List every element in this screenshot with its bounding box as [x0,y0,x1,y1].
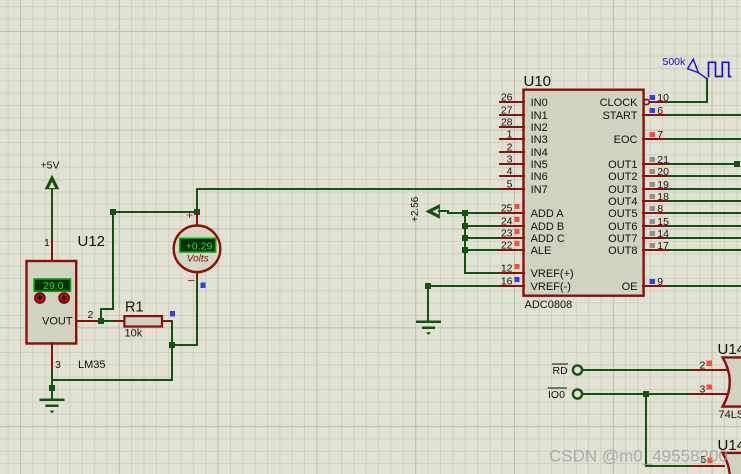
pin state square 20 [650,169,655,174]
vref bus vertical wire [465,213,500,273]
+2.56 power arrow [425,204,448,219]
pin state square 12 [514,264,519,269]
clock waveform glyph [709,62,731,76]
svg-text:+: + [186,208,193,222]
U12 pin 1 stub [51,242,53,262]
wire from pin 7 [668,138,741,140]
R1 right stub [162,320,172,322]
svg-text:1: 1 [44,237,50,249]
svg-text:ADC0808: ADC0808 [525,299,573,311]
svg-text:CLOCK: CLOCK [600,97,639,109]
svg-text:2: 2 [88,309,94,321]
svg-text:OUT1: OUT1 [608,159,637,171]
junction at R1 lower node [169,342,175,348]
U10 pin 14 (OUT7) stub [643,237,668,239]
junction on pin3 wire [49,385,55,391]
svg-text:500k: 500k [663,56,687,68]
svg-text:IN1: IN1 [531,110,548,122]
svg-text:4: 4 [507,165,513,177]
junction ALE [462,247,468,253]
U10 pin 26 (IN0) stub [500,101,524,103]
U10 pin 5 (IN7) stub [500,188,524,190]
wire from pin 17 [668,249,741,251]
junction at VREF(-) corner [425,283,431,289]
pin state square 25 [514,204,519,209]
U10 pin 19 (OUT3) stub [643,188,668,190]
svg-text:25: 25 [501,202,513,214]
U10 pin 23 (ADD C) stub [500,237,524,239]
LM35 up knob [59,293,69,303]
wire R1 node to ground node [52,345,172,380]
pin state square 17 [650,243,655,248]
svg-text:OUT6: OUT6 [608,221,637,233]
U10 pin 22 (ALE) stub [500,249,524,251]
+5V power symbol [45,175,60,242]
LM35 display [34,279,70,292]
svg-text:VREF(-): VREF(-) [531,281,571,293]
svg-text:28: 28 [501,116,513,128]
voltmeter display [180,238,216,252]
pin state square 9 [650,279,655,284]
U10 pin 7 (EOC) stub [643,138,668,140]
pin state square 14 [650,231,655,236]
wire voltmeter+ up and right to U10 IN7 [197,189,500,212]
svg-text:U12: U12 [78,233,106,250]
ground symbol (near U10) [416,320,441,335]
pin state square 18 [650,194,655,199]
svg-text:12: 12 [501,262,513,274]
junction ADD B [462,223,468,229]
wire IO0 node down to U14 pin 5 [646,394,692,466]
pin state square 19 [650,182,655,187]
U10 pin 1 (IN3) stub [500,138,524,140]
wire from pin 14 [668,237,741,239]
U10 pin 18 (OUT4) stub [643,200,668,202]
junction ADD C [462,235,468,241]
U10 pin 16 (VREF(-)) stub [500,285,524,287]
IO0 terminal circle [573,389,582,398]
wire from pin 21 [668,163,737,165]
svg-text:R1: R1 [125,300,144,316]
svg-text:29.0: 29.0 [43,280,64,292]
wire U12 pin2 to R1 [99,320,114,322]
OR gate U14a body [723,357,741,406]
svg-text:27: 27 [501,104,513,116]
svg-text:ADD B: ADD B [531,221,565,233]
svg-text:1: 1 [507,128,513,140]
RD terminal label [553,364,569,377]
wire pin2 node up to voltmeter rail [101,212,113,318]
svg-text:OUT7: OUT7 [608,233,637,245]
svg-text:START: START [602,110,637,122]
svg-text:IN4: IN4 [531,147,548,159]
U10 pin 2 (IN4) stub [500,151,524,153]
wire pin3 to ground [51,371,53,400]
selection square near R1 [170,311,175,316]
U10 pin 27 (IN1) stub [500,114,524,116]
svg-text:ADD C: ADD C [531,233,565,245]
junction ADD A [462,210,468,216]
svg-text:Volts: Volts [187,254,209,265]
RD terminal circle [573,365,582,374]
clock generator lead [698,73,707,79]
wire rail to voltmeter + [113,211,197,213]
pin state square 16 [514,277,519,282]
svg-text:VOUT: VOUT [42,316,73,328]
U10 pin 8 (OUT5) stub [643,212,668,214]
wire from pin 6 [668,114,741,116]
U14 pin 2 stub [691,369,729,371]
wire from pin 20 [668,175,741,177]
pin state square 21 [650,157,655,162]
wire +2.56 to ADD A [448,211,500,213]
ADC0808 chip U10 body [524,90,644,296]
svg-text:LM35: LM35 [78,359,106,371]
pin state square 7 [650,132,655,137]
U10 pin 12 (VREF(+)) stub [500,272,524,274]
pin state square 22 [514,241,519,246]
U10 pin 21 (OUT1) stub [643,163,668,165]
pin state square 8 [650,206,655,211]
svg-text:VREF(+): VREF(+) [531,268,574,280]
pin state square 15 [650,219,655,224]
R1 left stub [114,320,125,322]
wire from pin 8 [668,212,741,214]
U10 pin 6 (START) stub [643,114,668,116]
svg-text:2: 2 [700,360,706,372]
wire from pin 18 [668,200,741,202]
ground symbol (left) [39,399,64,414]
wire from pin 15 [668,225,741,227]
svg-text:CSDN @m0_49558200: CSDN @m0_49558200 [549,447,728,466]
svg-text:24: 24 [501,215,513,227]
svg-text:EOC: EOC [614,134,638,146]
svg-text:23: 23 [501,227,513,239]
svg-text:7: 7 [657,129,663,141]
wire end dot OUT1 [734,161,740,167]
pin state square 6 [650,108,655,113]
svg-text:U14: U14 [718,341,741,358]
U10 pin 24 (ADD B) stub [500,225,524,227]
U12 pin 2 stub [76,320,99,322]
svg-text:10k: 10k [125,328,143,340]
U10 pin 20 (OUT2) stub [643,175,668,177]
wire from pin 19 [668,188,741,190]
svg-text:IN7: IN7 [531,184,548,196]
svg-text:5: 5 [507,178,513,190]
pin state square 24 [514,217,519,222]
svg-text:U10: U10 [524,73,552,90]
wire from pin 9 [668,285,741,287]
U10 pin 10 (CLOCK) stub [650,101,668,103]
svg-text:+2.56: +2.56 [410,196,421,222]
clock generator pointer [688,59,699,72]
wire to ALE [465,249,500,251]
pin state square U14 pin3 [707,384,712,389]
wire RD to U14 pin 2 [582,369,691,371]
U12 pin 3 stub [51,343,53,371]
U10 pin 17 (OUT8) stub [643,249,668,251]
svg-text:IN2: IN2 [531,122,548,134]
LM35 down knob [35,293,45,303]
junction at rail left end [110,209,116,215]
voltmeter body [174,226,221,273]
svg-text:3: 3 [507,153,513,165]
svg-text:IN6: IN6 [531,171,548,183]
svg-text:+0.29: +0.29 [186,240,213,252]
wire R1 to lower node [171,321,173,345]
wire lower node to voltmeter - [172,277,197,345]
voltmeter - pin stub [196,271,198,278]
voltmeter + pin stub [196,213,198,227]
svg-text:OE: OE [622,281,638,293]
svg-text:OUT3: OUT3 [608,184,637,196]
selection square near voltmeter [200,283,205,288]
svg-text:IN5: IN5 [531,159,548,171]
wire to ADD C [465,237,500,239]
U14 pin 3 stub [691,393,729,395]
svg-text:22: 22 [501,239,513,251]
svg-text:RD: RD [553,365,569,377]
pin state square 23 [514,229,519,234]
junction at pin2/R1 node [98,318,104,324]
resistor R1 body [124,316,162,326]
U10 pin 28 (IN2) stub [500,126,524,128]
IO0 terminal label [548,388,567,401]
wire VREF(-) to ground [428,286,500,321]
U10 pin 15 (OUT6) stub [643,225,668,227]
svg-text:IO0: IO0 [548,389,565,401]
svg-text:ALE: ALE [531,245,552,257]
svg-text:OUT4: OUT4 [608,196,637,208]
U14 pin 5 stub [692,465,724,467]
junction at voltmeter + node [194,209,200,215]
U10 pin 9 (OE) stub [643,285,668,287]
svg-text:OUT8: OUT8 [608,245,637,257]
OR gate U14b body [723,453,741,474]
svg-text:3: 3 [700,383,706,395]
svg-text:−: − [188,273,196,288]
pin state square U14 pin2 [707,361,712,366]
svg-text:OUT5: OUT5 [608,208,637,220]
U10 pin 25 (ADD A) stub [500,212,524,214]
svg-text:2: 2 [507,141,513,153]
U10 pin 3 (IN5) stub [500,163,524,165]
svg-text:26: 26 [501,91,513,103]
svg-text:OUT2: OUT2 [608,171,637,183]
svg-text:74LS: 74LS [719,409,741,421]
pin state square U14 pin5 [707,458,712,463]
svg-text:+5V: +5V [41,159,60,171]
svg-text:IN3: IN3 [531,134,548,146]
svg-text:ADD A: ADD A [531,208,565,220]
svg-text:16: 16 [501,275,513,287]
LM35 body U12 [27,261,77,344]
svg-text:3: 3 [55,359,61,371]
CLOCK pin inversion bubble [644,99,649,104]
svg-text:6: 6 [657,105,663,117]
pin state square 10 [650,95,655,100]
wire IO0 to U14 pin 3 [582,393,691,395]
wire to ADD B [465,225,500,227]
wire clock source to pin 10 [668,79,707,102]
U10 pin 4 (IN6) stub [500,175,524,177]
svg-text:9: 9 [657,276,663,288]
svg-text:IN0: IN0 [531,97,548,109]
svg-text:8: 8 [657,203,663,215]
junction on IO0 wire [643,391,649,397]
